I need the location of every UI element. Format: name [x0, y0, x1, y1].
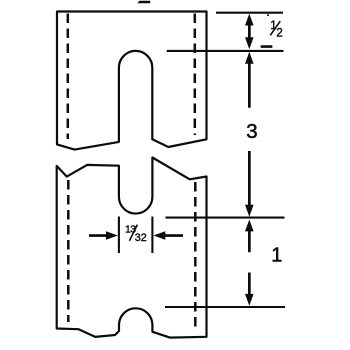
dimension 3 arrow up	[245, 52, 254, 108]
slot width arrow left	[89, 231, 118, 240]
svg-text:32: 32	[135, 232, 147, 244]
bend line dashed right lower	[194, 182, 197, 331]
half fraction text	[270, 20, 283, 39]
stray dash artifact	[261, 45, 273, 48]
dimension line slot bottom level	[166, 217, 285, 219]
plate upper broken section outline	[57, 12, 207, 150]
svg-text:1: 1	[271, 244, 282, 266]
dimension 3 arrow down	[245, 151, 254, 217]
dimension line slot top level	[167, 50, 284, 52]
extension line slot left	[118, 217, 120, 254]
dimension line top edge level	[216, 12, 283, 14]
dimension line notch top level	[165, 306, 285, 308]
slot width arrow right	[153, 231, 183, 240]
bend line dashed right upper	[194, 14, 197, 136]
svg-text:3: 3	[246, 120, 257, 143]
bend line dashed left lower	[67, 180, 70, 322]
bend line dashed left upper	[67, 14, 70, 140]
label 13/32 fraction	[125, 225, 147, 245]
plate lower broken section outline	[57, 158, 207, 338]
stray dot artifact	[267, 14, 269, 16]
half-inch double arrow	[245, 14, 254, 50]
extension line slot right	[151, 217, 153, 254]
dimension 1 arrow up	[245, 220, 254, 253]
cropped figure number glyph at top	[137, 1, 150, 4]
svg-text:2: 2	[276, 28, 282, 40]
dimension 1 arrow down	[245, 273, 254, 306]
